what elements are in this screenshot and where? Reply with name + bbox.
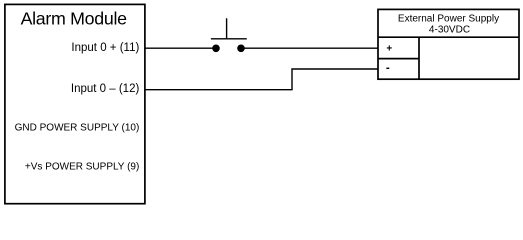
svg-text:+Vs POWER SUPPLY (9): +Vs POWER SUPPLY (9): [25, 162, 139, 173]
svg-text:4-30VDC: 4-30VDC: [429, 25, 470, 36]
wire: pushbutton right contact to power supply +: [241, 47, 378, 49]
svg-text:External Power Supply: External Power Supply: [398, 14, 499, 25]
power supply header divider: [378, 36, 519, 38]
wire: Input 0 - to power supply - (with jog): [145, 69, 378, 90]
svg-text:Input 0 + (11): Input 0 + (11): [71, 42, 139, 54]
wire: Input 0 + to pushbutton left contact: [145, 47, 216, 49]
power supply +/- cell divider: [378, 58, 419, 60]
svg-text:Alarm Module: Alarm Module: [21, 9, 128, 29]
svg-text:Input 0 – (12): Input 0 – (12): [71, 83, 140, 95]
alarm module box: [5, 4, 145, 203]
pushbutton S1 actuator bar: [211, 38, 247, 40]
svg-text:GND POWER SUPPLY (10): GND POWER SUPPLY (10): [15, 122, 140, 133]
external power supply box: [378, 9, 519, 79]
svg-text:+: +: [386, 43, 392, 54]
svg-text:-: -: [386, 63, 390, 75]
pushbutton S1 actuator stem: [226, 18, 228, 39]
pushbutton S1 left contact: [212, 45, 220, 53]
pushbutton S1 right contact: [237, 45, 245, 53]
power supply terminal column divider: [418, 37, 420, 79]
